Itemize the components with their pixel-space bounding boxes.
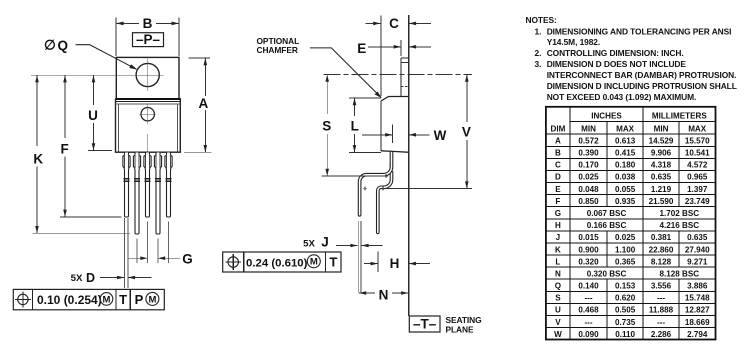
svg-text:S: S [555, 294, 561, 303]
pin 1 edge extension lines [125, 218, 129, 288]
front lead side view [377, 163, 393, 234]
dimension table grid [546, 107, 716, 340]
svg-text:MAX: MAX [688, 124, 707, 133]
svg-text:8.128: 8.128 [651, 257, 672, 266]
svg-text:MIN: MIN [654, 124, 669, 133]
svg-text:1.397: 1.397 [687, 185, 708, 194]
svg-text:D: D [555, 173, 561, 182]
svg-text:0.048: 0.048 [578, 185, 599, 194]
leader Q [76, 45, 138, 70]
svg-text:0.965: 0.965 [687, 173, 708, 182]
svg-text:G: G [555, 209, 561, 218]
svg-text:8.128 BSC: 8.128 BSC [660, 270, 700, 279]
pin 1 [123, 153, 130, 218]
chamfer leader [310, 48, 382, 98]
svg-text:F: F [555, 197, 560, 206]
svg-text:T: T [119, 292, 127, 307]
dim L [353, 98, 357, 152]
svg-text:3.556: 3.556 [651, 282, 672, 291]
seating plane line [408, 15, 410, 316]
svg-text:0.153: 0.153 [615, 282, 636, 291]
svg-text:0.415: 0.415 [615, 149, 636, 158]
datum P box [133, 33, 164, 47]
svg-text:0.10 (0.254): 0.10 (0.254) [37, 293, 102, 307]
svg-text:21.590: 21.590 [649, 197, 674, 206]
dim A [184, 58, 212, 152]
svg-text:–P–: –P– [136, 32, 161, 47]
svg-text:5X: 5X [303, 239, 315, 250]
svg-text:DIMENSIONING AND TOLERANCING P: DIMENSIONING AND TOLERANCING PER ANSI [547, 26, 732, 36]
svg-text:0.613: 0.613 [615, 136, 636, 145]
mounting hole [136, 63, 159, 86]
svg-text:4.318: 4.318 [651, 161, 672, 170]
svg-text:0.935: 0.935 [615, 197, 636, 206]
dim E [368, 45, 431, 49]
svg-text:DIMENSION D INCLUDING PROTRUSI: DIMENSION D INCLUDING PROTRUSION SHALL [547, 81, 737, 91]
pin 1 crimp [124, 179, 130, 182]
side tab [401, 58, 410, 97]
pin 3 [144, 153, 151, 218]
svg-text:1.219: 1.219 [651, 185, 672, 194]
svg-text:PLANE: PLANE [446, 325, 474, 335]
svg-text:Q: Q [58, 38, 69, 53]
svg-text:K: K [555, 245, 561, 254]
svg-text:14.529: 14.529 [649, 136, 674, 145]
svg-text:L: L [555, 257, 560, 266]
dim 5X J [336, 244, 383, 248]
feature control frame front [13, 289, 164, 309]
svg-text:0.110: 0.110 [615, 330, 635, 339]
V bottom extension [385, 188, 471, 190]
svg-text:0.140: 0.140 [578, 282, 599, 291]
svg-text:MAX: MAX [616, 124, 635, 133]
body front view [116, 99, 181, 152]
svg-text:0.900: 0.900 [578, 245, 599, 254]
svg-text:2.794: 2.794 [687, 330, 708, 339]
dim V [465, 75, 469, 189]
svg-text:1.702 BSC: 1.702 BSC [660, 209, 700, 218]
svg-text:∅: ∅ [44, 38, 56, 53]
svg-text:0.390: 0.390 [578, 149, 599, 158]
modifier M side [307, 255, 320, 268]
svg-text:0.24 (0.610): 0.24 (0.610) [246, 257, 308, 269]
dim F [60, 75, 122, 217]
svg-text:0.038: 0.038 [615, 173, 636, 182]
svg-text:0.055: 0.055 [615, 185, 636, 194]
svg-text:1.: 1. [535, 26, 542, 36]
body hole crosshair [140, 104, 157, 124]
tab/body ridge lines [116, 99, 181, 104]
svg-text:B: B [143, 16, 153, 31]
svg-text:E: E [357, 41, 366, 56]
H tick line [377, 251, 379, 272]
pin 2 crimp [134, 179, 140, 182]
dashed centerline [324, 74, 472, 76]
svg-text:Q: Q [555, 282, 561, 291]
svg-text:K: K [33, 152, 43, 167]
svg-text:NOT EXCEED 0.043 (1.092) MAXIM: NOT EXCEED 0.043 (1.092) MAXIMUM. [547, 92, 697, 102]
body hole [141, 108, 154, 121]
svg-text:0.572: 0.572 [578, 136, 599, 145]
svg-text:N: N [555, 270, 561, 279]
svg-text:---: --- [657, 294, 665, 303]
svg-text:A: A [555, 136, 561, 145]
svg-text:U: U [555, 306, 561, 315]
hole horizontal centerline / datum reference line [31, 74, 163, 76]
svg-text:10.541: 10.541 [685, 149, 710, 158]
svg-text:S: S [322, 119, 331, 134]
svg-text:18.669: 18.669 [685, 318, 710, 327]
svg-text:0.090: 0.090 [578, 330, 599, 339]
dim 5X D [100, 276, 152, 280]
svg-text:27.940: 27.940 [685, 245, 710, 254]
svg-text:15.748: 15.748 [685, 294, 710, 303]
dim C [366, 22, 431, 26]
svg-text:0.381: 0.381 [651, 233, 672, 242]
svg-text:V: V [555, 318, 561, 327]
svg-text:0.015: 0.015 [578, 233, 599, 242]
W tick line [391, 124, 393, 143]
svg-text:12.827: 12.827 [685, 306, 710, 315]
svg-text:2.286: 2.286 [651, 330, 672, 339]
package centerline [147, 134, 149, 152]
dim H [364, 262, 430, 266]
svg-text:---: --- [584, 294, 592, 303]
svg-text:15.570: 15.570 [685, 136, 710, 145]
pin 2 [133, 153, 140, 235]
dim S [325, 75, 329, 176]
body inner edge lines [117, 105, 119, 152]
svg-text:G: G [182, 252, 193, 267]
svg-text:0.505: 0.505 [615, 306, 636, 315]
svg-text:0.180: 0.180 [615, 161, 636, 170]
svg-text:C: C [389, 16, 399, 31]
position symbol side [225, 254, 241, 270]
svg-text:2.: 2. [535, 48, 542, 58]
svg-text:3.886: 3.886 [687, 282, 708, 291]
tab hole hidden lines [401, 62, 410, 86]
svg-text:0.025: 0.025 [615, 233, 636, 242]
svg-text:4.216 BSC: 4.216 BSC [660, 221, 700, 230]
svg-text:J: J [556, 233, 561, 242]
svg-text:NOTES:: NOTES: [526, 15, 557, 25]
E extension line [400, 40, 402, 56]
S bottom extension [322, 175, 387, 177]
position symbol [15, 292, 31, 308]
dim W [362, 133, 430, 137]
svg-text:9.906: 9.906 [651, 149, 672, 158]
svg-text:0.635: 0.635 [687, 233, 708, 242]
pin 4 crimp [155, 179, 161, 182]
svg-text:5X: 5X [71, 273, 83, 284]
svg-text:M: M [310, 257, 318, 268]
svg-text:0.365: 0.365 [615, 257, 636, 266]
svg-text:0.468: 0.468 [578, 306, 599, 315]
svg-text:0.320: 0.320 [578, 257, 599, 266]
svg-text:C: C [555, 161, 561, 170]
side body [381, 97, 410, 153]
feature control frame side [223, 252, 341, 272]
table header text [550, 112, 707, 134]
dim N [359, 291, 408, 295]
svg-text:3.: 3. [535, 59, 542, 69]
datum T box [409, 316, 440, 332]
svg-text:0.067 BSC: 0.067 BSC [587, 209, 627, 218]
svg-text:0.635: 0.635 [651, 173, 672, 182]
svg-text:B: B [555, 149, 561, 158]
svg-text:D: D [86, 271, 95, 285]
svg-text:A: A [199, 96, 209, 111]
svg-text:W: W [554, 330, 562, 339]
svg-text:0.620: 0.620 [615, 294, 636, 303]
svg-text:M: M [148, 294, 156, 305]
svg-text:V: V [462, 124, 471, 139]
svg-text:U: U [88, 108, 98, 123]
svg-text:–T–: –T– [413, 317, 437, 332]
front view: B extension lines [115, 18, 117, 57]
svg-text:J: J [321, 235, 329, 250]
svg-text:23.749: 23.749 [685, 197, 710, 206]
svg-text:0.850: 0.850 [578, 197, 599, 206]
svg-text:P: P [135, 292, 144, 307]
svg-text:---: --- [584, 318, 592, 327]
svg-text:9.271: 9.271 [687, 257, 708, 266]
svg-text:W: W [434, 128, 447, 143]
svg-text:CHAMFER: CHAMFER [257, 45, 298, 55]
pin 3 crimp [145, 179, 151, 182]
svg-text:INTERCONNECT BAR (DAMBAR) PROT: INTERCONNECT BAR (DAMBAR) PROTRUSION. [547, 70, 737, 80]
svg-text:0.170: 0.170 [578, 161, 599, 170]
svg-text:0.166 BSC: 0.166 BSC [587, 221, 627, 230]
dim G [128, 256, 180, 260]
svg-text:0.735: 0.735 [615, 318, 636, 327]
tab front view [116, 57, 179, 99]
svg-text:E: E [555, 185, 561, 194]
svg-text:4.572: 4.572 [687, 161, 708, 170]
svg-text:DIM: DIM [550, 124, 565, 133]
svg-text:SEATING: SEATING [446, 315, 482, 325]
pin 5 crimp [166, 179, 172, 182]
svg-text:---: --- [657, 318, 665, 327]
svg-text:H: H [555, 221, 561, 230]
svg-text:M: M [103, 294, 111, 305]
J extension lines [358, 221, 361, 293]
back lead side view [358, 152, 393, 216]
svg-text:T: T [329, 254, 337, 269]
body bottom extension [349, 151, 381, 153]
svg-text:0.320 BSC: 0.320 BSC [587, 270, 627, 279]
svg-text:DIMENSION D DOES NOT INCLUDE: DIMENSION D DOES NOT INCLUDE [547, 59, 687, 69]
svg-text:Y14.5M, 1982.: Y14.5M, 1982. [547, 37, 600, 47]
table body text [554, 136, 710, 339]
bend center marks [363, 174, 388, 191]
svg-text:H: H [390, 256, 400, 271]
svg-text:MIN: MIN [581, 124, 596, 133]
svg-text:N: N [379, 288, 389, 303]
dim B [116, 22, 179, 26]
svg-text:INCHES: INCHES [591, 112, 622, 121]
dim U [88, 75, 112, 150]
modifier M 2 [146, 292, 159, 305]
svg-text:1.100: 1.100 [615, 245, 636, 254]
svg-text:CONTROLLING DIMENSION: INCH.: CONTROLLING DIMENSION: INCH. [547, 48, 684, 58]
svg-text:22.860: 22.860 [649, 245, 674, 254]
svg-text:11.888: 11.888 [649, 306, 674, 315]
svg-text:L: L [351, 119, 359, 134]
modifier M [100, 293, 113, 306]
svg-text:0.025: 0.025 [578, 173, 599, 182]
notes text [526, 15, 737, 102]
pin 4 [154, 153, 161, 235]
svg-text:F: F [60, 142, 68, 157]
pin inner lead lines [125, 154, 171, 168]
svg-text:MILLIMETERS: MILLIMETERS [652, 112, 707, 121]
pin centerline extensions [137, 222, 169, 264]
body top extension [349, 97, 381, 99]
pin 5 [165, 153, 172, 218]
hole vertical centerline [147, 59, 149, 91]
C extension line [380, 15, 382, 96]
dim K [32, 75, 130, 233]
